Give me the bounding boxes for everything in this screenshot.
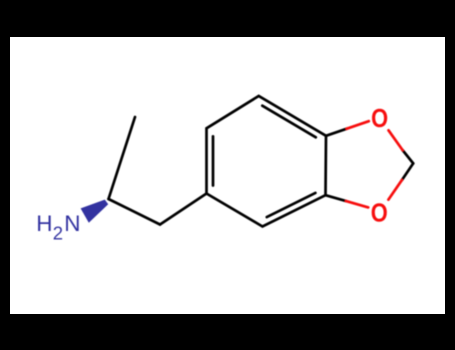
- svg-text:H: H: [36, 211, 52, 236]
- svg-text:2: 2: [53, 222, 63, 243]
- svg-text:N: N: [64, 211, 80, 236]
- svg-text:O: O: [371, 199, 388, 227]
- svg-text:O: O: [371, 105, 388, 133]
